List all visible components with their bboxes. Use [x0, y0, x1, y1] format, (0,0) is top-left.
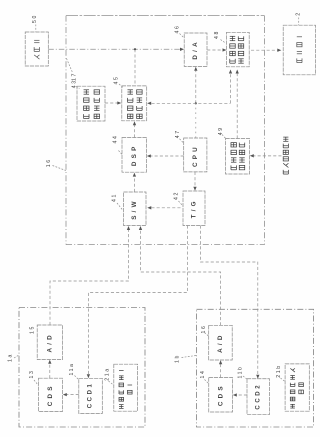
- leader line for label 49: [222, 135, 226, 139]
- memory box 50: [25, 32, 48, 66]
- wire timing generator to selector: [151, 207, 181, 209]
- drive circuit box 21b: [285, 364, 309, 411]
- A/D converter box 16 (unit b): [209, 325, 233, 360]
- arrowhead into box 48: [223, 48, 227, 51]
- drive circuit 21a text column 1: [119, 370, 124, 372]
- A/D converter box 15 (unit a): [37, 325, 62, 360]
- leader line for label 21a: [109, 381, 115, 386]
- arrowhead into box 45 left edge: [117, 101, 121, 104]
- leader line for label 47: [180, 139, 184, 143]
- switching signal input circuit box 49: [226, 139, 250, 175]
- svg-text:16: 16: [201, 325, 207, 334]
- processing unit boundary box 17 right edge: [264, 16, 266, 245]
- svg-text:16: 16: [46, 158, 52, 167]
- wire CCD1 to CDS(a): [67, 394, 79, 396]
- svg-text:45: 45: [114, 76, 120, 85]
- character superimposing circuit box 48: [227, 32, 250, 67]
- leader line for label 2: [298, 18, 300, 26]
- wire control bus up into D/A: [195, 71, 197, 104]
- box 45 text column 1: [127, 90, 132, 94]
- wire D/A to box 48: [207, 49, 222, 51]
- wire control bus corner up into box 48: [230, 73, 232, 104]
- svg-text:17: 17: [72, 72, 78, 81]
- leader line for label 42: [179, 201, 184, 206]
- arrowhead into box 44 bottom: [133, 173, 136, 177]
- svg-text:44: 44: [112, 135, 118, 144]
- svg-text:21a: 21a: [105, 367, 111, 380]
- leader line for label 17: [67, 59, 73, 73]
- leader line for label 21b: [281, 378, 286, 382]
- camera unit boundary box 1a (chain line): [19, 308, 145, 428]
- svg-text:2: 2: [296, 11, 302, 16]
- arrowhead into box 42 top: [193, 187, 196, 191]
- svg-text:11b: 11b: [238, 365, 244, 378]
- arrowhead into box 49 right edge: [250, 154, 254, 157]
- svg-text:49: 49: [218, 126, 224, 135]
- wire A/D(b) up to selector 41: [141, 230, 221, 325]
- box 48 text column 2: [238, 36, 243, 40]
- svg-text:11a: 11a: [69, 362, 75, 375]
- leader line for label 10: [53, 166, 66, 171]
- arrowhead into monitor: [277, 49, 281, 52]
- svg-text:15: 15: [30, 325, 36, 334]
- drive circuit box 21a: [114, 364, 138, 411]
- leader line for label 11b: [243, 376, 248, 380]
- processing unit boundary box 17 bottom edge: [66, 244, 265, 246]
- svg-text:42: 42: [174, 191, 180, 200]
- box 45 text column 2: [137, 90, 142, 94]
- character generating circuit box 45: [122, 86, 147, 121]
- svg-text:CCD2: CCD2: [255, 383, 261, 410]
- wire A/D(a) up to selector 41: [50, 230, 129, 325]
- display switch input text (rotated kanji column): [283, 137, 288, 141]
- svg-text:A/D: A/D: [47, 332, 54, 352]
- wire box 43 to box 45: [105, 102, 118, 104]
- leader line for label 41: [117, 203, 123, 211]
- wire box 44 to box 45: [134, 125, 136, 138]
- svg-text:A/D: A/D: [217, 332, 224, 352]
- monitor box 2: [283, 25, 315, 75]
- svg-text:T/G: T/G: [191, 198, 198, 218]
- wire box 41 to box 44: [133, 177, 135, 193]
- svg-text:47: 47: [175, 129, 181, 138]
- svg-text:S/W: S/W: [131, 198, 138, 220]
- arrowhead into box 41 bottom left: [127, 226, 130, 230]
- arrowhead into CCD2 top: [256, 375, 259, 379]
- wire box 49 to box 48: [236, 73, 238, 139]
- leader line for label 48: [221, 40, 226, 44]
- arrowhead into CCD1 top: [87, 374, 90, 378]
- character information input circuit box 43: [77, 86, 105, 121]
- svg-text:14: 14: [200, 370, 206, 379]
- timing generator box 42: [183, 191, 205, 226]
- arrowhead into A/D(a) bottom: [48, 360, 51, 364]
- svg-text:41: 41: [112, 193, 118, 202]
- svg-text:13: 13: [29, 370, 35, 379]
- wire tap from bus down to box 45: [134, 49, 136, 85]
- box 49 text column 1: [231, 143, 236, 147]
- arrowhead into box 45 right edge: [147, 102, 151, 105]
- arrowhead into box 41 right edge: [147, 206, 151, 209]
- signal processing box 44: [122, 138, 147, 173]
- CDS circuit box 14 (unit b): [209, 378, 233, 413]
- wire timing generator to CCD1: [88, 226, 187, 375]
- D/A converter box 46: [184, 33, 207, 66]
- CDS circuit box 13 (unit a): [39, 378, 63, 411]
- leader line for label 16: [205, 333, 210, 337]
- CCD image sensor box 11b: [247, 379, 270, 415]
- CCD image sensor box 11a: [79, 378, 103, 413]
- junction dot on control bus: [195, 102, 197, 104]
- leader line for label 11a: [75, 376, 80, 381]
- control bus horizontal: [152, 102, 231, 104]
- wire CCD2 to CDS(b): [237, 394, 248, 396]
- memory text (メモリ rotated): [34, 40, 39, 42]
- leader line for label 46: [180, 34, 185, 38]
- leader line for label 13: [34, 380, 39, 386]
- box 48 text column 1: [230, 36, 235, 40]
- wire memory to D/A (chain): [48, 48, 180, 50]
- drive circuit 21b text column 2: [299, 383, 304, 387]
- svg-text:21b: 21b: [276, 364, 282, 377]
- wire CPU top to control bus: [195, 103, 197, 138]
- wire timing generator to CCD2: [200, 226, 257, 376]
- arrowhead into box 45 bottom: [133, 121, 136, 125]
- camera unit boundary box 1b (chain line): [197, 309, 314, 427]
- leader line for label 44: [119, 151, 123, 155]
- svg-text:50: 50: [32, 14, 38, 23]
- leader line for label 45: [119, 84, 123, 88]
- svg-text:D/A: D/A: [192, 39, 199, 59]
- junction dot on memory bus: [134, 48, 136, 50]
- leader line for label 1b: [182, 356, 197, 358]
- svg-text:46: 46: [175, 25, 181, 34]
- wire CPU to timing generator: [194, 172, 196, 187]
- arrowhead into CDS(b) right edge: [233, 393, 237, 396]
- wire CPU to box 44: [151, 155, 184, 157]
- arrowhead into CDS(a) right edge: [63, 393, 67, 396]
- svg-text:1a: 1a: [8, 353, 14, 362]
- arrowhead into D/A: [180, 48, 184, 51]
- monitor text (モニター rotated): [297, 36, 302, 38]
- wire box 48 to monitor: [251, 49, 279, 51]
- CPU box 47: [184, 138, 207, 172]
- leader line for label 1a: [14, 355, 19, 358]
- arrowhead into D/A bottom: [194, 67, 197, 71]
- arrowhead into box 48 bottom left: [229, 70, 232, 74]
- processing unit boundary box 17 left edge: [65, 16, 67, 245]
- leader line for label 43: [76, 87, 80, 89]
- processing unit boundary box 17 top edge: [66, 15, 265, 17]
- wire CDS(b) to A/D(b): [220, 364, 222, 378]
- leader line for label 14: [205, 380, 210, 385]
- box 43 text column 2: [94, 90, 99, 94]
- selector box 41: [124, 192, 147, 226]
- box 49 text column 2: [239, 143, 244, 147]
- arrowhead into box 44 right edge: [147, 154, 151, 157]
- svg-text:CCD1: CCD1: [88, 382, 94, 409]
- leader line for label 50: [35, 25, 37, 32]
- drive circuit 21b text column 1: [290, 368, 295, 372]
- wire CDS(a) to A/D(a): [49, 364, 51, 379]
- svg-text:CDS: CDS: [217, 383, 224, 406]
- svg-text:CPU: CPU: [192, 144, 199, 167]
- svg-text:48: 48: [214, 30, 220, 39]
- svg-text:DSP: DSP: [131, 144, 138, 167]
- box 43 text column 1: [84, 90, 89, 94]
- drive circuit 21a text column 2: [128, 384, 133, 386]
- wire external input to box 49: [254, 155, 282, 157]
- arrowhead into box 48 bottom right: [236, 70, 239, 74]
- svg-text:1b: 1b: [175, 354, 181, 363]
- arrowhead into box 41 bottom right: [139, 226, 142, 230]
- arrowhead into A/D(b) bottom: [219, 360, 222, 364]
- svg-text:CDS: CDS: [47, 383, 54, 406]
